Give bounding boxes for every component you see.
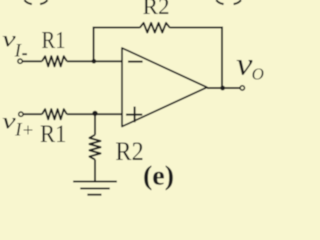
cropped label remnant "(" top-left: [25, 0, 32, 4]
wire: vI+ terminal to R1: [23, 113, 42, 115]
cropped label remnant ")" top-right: [234, 0, 241, 4]
svg-text:+: +: [23, 120, 34, 141]
svg-text:R2: R2: [143, 0, 170, 19]
svg-text:R1: R1: [40, 121, 67, 148]
wire: R2 to ground: [94, 160, 96, 182]
ground: [73, 181, 117, 183]
svg-text:O: O: [252, 65, 264, 84]
resistor R2 (feedback): [140, 23, 170, 33]
wire: feedback top right segment: [170, 27, 223, 29]
node C (junction: output / feedback): [220, 86, 225, 91]
cropped label remnant ")" top-left: [40, 0, 47, 4]
wire: feedback left vertical: [93, 28, 95, 62]
node A (junction: inverting input / feedback): [92, 59, 97, 64]
cropped label remnant "(" top-right: [216, 0, 223, 4]
svg-text:R2: R2: [115, 137, 143, 166]
wire: feedback top left segment: [93, 27, 140, 29]
input terminal vI+ (open circle): [19, 112, 23, 116]
resistor R2 (to ground, vertical): [89, 135, 100, 160]
wire: feedback right vertical to output: [221, 27, 223, 88]
resistor R1 (lower, non-inverting input): [42, 109, 67, 119]
op-amp non-inverting pin mark (+): [126, 114, 142, 116]
svg-text:(e): (e): [143, 160, 174, 190]
node B (junction: non-inverting input / R2 to ground): [92, 111, 97, 116]
op-amp U1 (triangle): [122, 48, 207, 127]
wire: op-amp output: [207, 87, 240, 89]
wire: R1 to op-amp non-inverting input: [67, 113, 122, 115]
output terminal vO (open circle): [240, 86, 244, 90]
wire: R1 to op-amp inverting input: [67, 60, 122, 62]
resistor R1 (upper, inverting input): [42, 56, 67, 66]
input terminal vI- (open circle): [18, 59, 22, 63]
wire: vI- terminal to R1: [22, 60, 42, 62]
svg-text:R1: R1: [42, 28, 66, 54]
wire: node B down to R2: [94, 114, 96, 135]
op-amp inverting pin mark (-): [128, 61, 143, 63]
